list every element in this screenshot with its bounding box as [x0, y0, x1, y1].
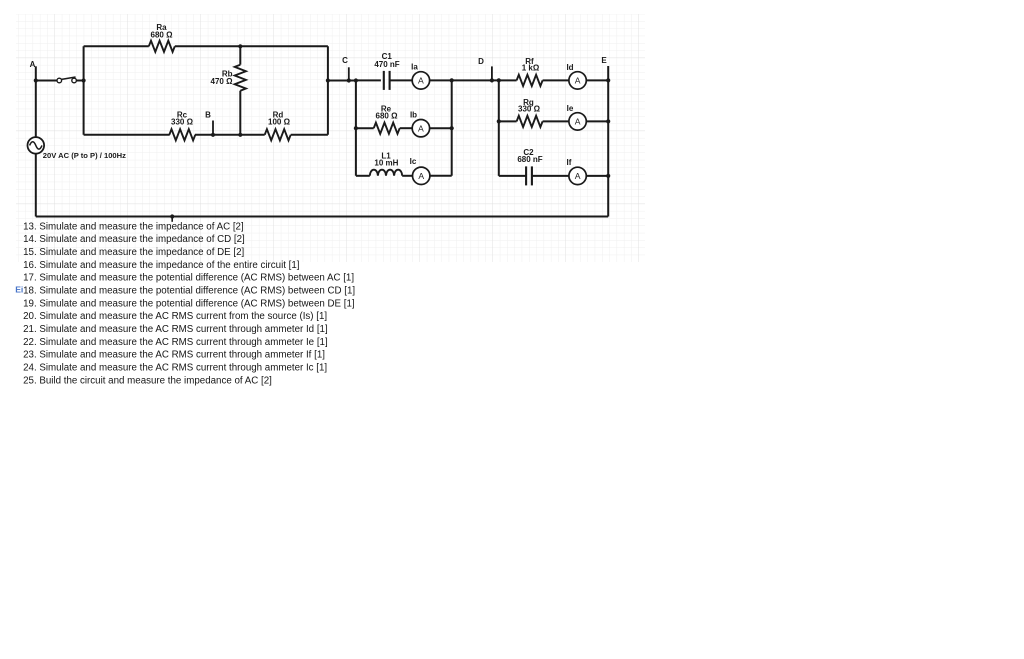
svg-text:Ia: Ia	[411, 62, 418, 71]
svg-text:16. Simulate and measure the i: 16. Simulate and measure the impedance o…	[23, 260, 300, 271]
ammeter Ib	[412, 120, 429, 137]
node C label	[342, 56, 348, 65]
svg-text:Ie: Ie	[567, 104, 574, 113]
junction group2 top-left	[497, 78, 501, 82]
label Ia	[411, 62, 418, 71]
svg-text:Ib: Ib	[410, 110, 417, 119]
junction E top	[606, 78, 610, 82]
junction C	[347, 78, 351, 82]
wire Rf to Id	[543, 79, 569, 81]
wire Rb upper lead	[239, 46, 241, 64]
wire Re to Ib	[400, 127, 413, 129]
label Ib	[410, 110, 417, 119]
node B tick	[212, 121, 214, 135]
switch SW1	[57, 77, 76, 83]
svg-text:24. Simulate and measure the A: 24. Simulate and measure the AC RMS curr…	[23, 363, 327, 374]
label If	[567, 158, 572, 167]
wire Rf left lead	[499, 79, 517, 81]
wire group1 to group2	[452, 79, 499, 81]
wire bottom loop right segment	[291, 134, 328, 136]
wire bottom loop left segment	[84, 134, 170, 136]
svg-text:20. Simulate and measure the A: 20. Simulate and measure the AC RMS curr…	[23, 311, 327, 322]
label C1	[374, 52, 399, 69]
resistor Rc	[169, 129, 195, 140]
junction E mid	[606, 119, 610, 123]
wire Rg to Ie	[543, 120, 569, 122]
label Ic	[410, 157, 417, 166]
junction group1 right Ib	[450, 126, 454, 130]
svg-text:21. Simulate and measure the A: 21. Simulate and measure the AC RMS curr…	[23, 324, 328, 335]
label Rc	[171, 111, 194, 127]
wire Rg left lead	[499, 120, 517, 122]
svg-text:A: A	[575, 117, 581, 127]
label C2	[517, 148, 542, 164]
resistor Rg	[517, 116, 543, 127]
source value label	[43, 151, 126, 160]
svg-text:Id: Id	[566, 63, 573, 72]
wire Rb lower lead	[239, 91, 241, 135]
label Ie	[567, 104, 574, 113]
wire Ic to rail	[430, 175, 452, 177]
wire group1 right rail	[451, 80, 453, 175]
wire loop left vertical	[83, 46, 85, 135]
wire switch to loop	[76, 80, 83, 82]
svg-text:19. Simulate and measure the p: 19. Simulate and measure the potential d…	[23, 298, 355, 309]
wire top mid segment	[175, 45, 328, 47]
wire L1 to Ic	[402, 175, 412, 177]
ammeter Ia	[412, 72, 429, 89]
junction Rb bottom	[238, 133, 242, 137]
node C tick	[348, 67, 350, 80]
label Rd	[268, 111, 291, 127]
svg-text:B: B	[205, 111, 211, 120]
svg-text:E: E	[601, 56, 607, 65]
resistor Rb	[235, 65, 246, 91]
label Rg	[518, 98, 541, 114]
AC source V1	[28, 137, 45, 154]
label L1	[374, 151, 398, 167]
svg-text:17. Simulate and measure the p: 17. Simulate and measure the potential d…	[23, 273, 354, 284]
wire group1 bottom left lead	[356, 175, 370, 177]
wire C2 left lead	[499, 175, 526, 177]
wire group2 left rail	[498, 80, 500, 175]
svg-text:23. Simulate and measure the A: 23. Simulate and measure the AC RMS curr…	[23, 350, 325, 361]
svg-text:13. Simulate and measure the i: 13. Simulate and measure the impedance o…	[23, 221, 244, 232]
bottom stub junction	[170, 214, 174, 221]
junction loop right mid	[326, 78, 330, 82]
svg-text:C: C	[342, 56, 348, 65]
svg-text:Ei: Ei	[15, 285, 23, 295]
wire C1 left lead	[356, 79, 381, 81]
node E label	[601, 56, 607, 65]
ammeter Ic	[413, 167, 430, 184]
svg-text:10 mH: 10 mH	[374, 159, 398, 168]
wire node A tick	[35, 66, 37, 80]
wire top left segment	[84, 45, 149, 47]
svg-text:18. Simulate and measure the p: 18. Simulate and measure the potential d…	[23, 286, 355, 297]
node D tick	[491, 66, 493, 80]
wire A to switch	[36, 80, 57, 82]
ammeter Ie	[569, 113, 586, 130]
svg-text:470 nF: 470 nF	[374, 60, 399, 69]
svg-text:A: A	[30, 60, 36, 69]
junction Rb top	[238, 44, 242, 48]
ammeter If	[569, 167, 586, 184]
svg-text:100 Ω: 100 Ω	[268, 118, 291, 127]
ammeter Id	[569, 72, 586, 89]
junction B	[211, 133, 215, 137]
resistor Rf	[517, 75, 543, 86]
label Re	[376, 105, 399, 121]
junction group1 top-left	[354, 78, 358, 82]
svg-text:330 Ω: 330 Ω	[518, 105, 541, 114]
wire group1 left rail	[355, 81, 357, 176]
svg-text:A: A	[418, 123, 424, 133]
junction group1 left Re	[354, 126, 358, 130]
wire Id to rail	[586, 79, 608, 81]
wire source to bottom	[35, 154, 37, 217]
grid	[16, 14, 645, 262]
wire C2 to If	[532, 175, 569, 177]
blue marker icon	[15, 285, 23, 295]
capacitor C1	[384, 71, 390, 90]
instruction list	[23, 221, 355, 386]
svg-text:Ic: Ic	[410, 157, 417, 166]
label Rf	[522, 57, 540, 73]
junction group2 left Rg	[497, 119, 501, 123]
wire If to rail	[586, 175, 608, 177]
wire loop to group1	[328, 80, 356, 82]
svg-text:680 Ω: 680 Ω	[151, 30, 174, 39]
svg-text:A: A	[418, 171, 424, 181]
svg-text:1 kΩ: 1 kΩ	[522, 63, 540, 72]
svg-text:22. Simulate and measure the A: 22. Simulate and measure the AC RMS curr…	[23, 337, 328, 348]
svg-text:680 Ω: 680 Ω	[376, 111, 399, 120]
label Id	[566, 63, 573, 72]
capacitor C2	[526, 166, 532, 185]
junction E bottom	[606, 174, 610, 178]
wire C1 to Ia	[390, 79, 413, 81]
svg-text:A: A	[418, 76, 424, 86]
inductor L1	[370, 170, 402, 176]
wire Re left lead	[356, 127, 374, 129]
wire bottom return	[36, 216, 608, 218]
svg-text:A: A	[575, 171, 581, 181]
svg-text:A: A	[575, 76, 581, 86]
node B label	[205, 111, 211, 120]
svg-text:25. Build the circuit and meas: 25. Build the circuit and measure the im…	[23, 375, 272, 386]
svg-text:If: If	[567, 158, 572, 167]
svg-text:D: D	[478, 57, 484, 66]
svg-text:330 Ω: 330 Ω	[171, 118, 194, 127]
node A label	[30, 60, 36, 69]
svg-text:680 nF: 680 nF	[517, 155, 542, 164]
wire Ib to rail	[430, 127, 452, 129]
label Rb	[211, 70, 234, 86]
node D label	[478, 57, 484, 66]
wire A down to source	[35, 81, 37, 138]
svg-text:470 Ω: 470 Ω	[211, 77, 234, 86]
wire Ie to rail	[586, 120, 608, 122]
resistor Ra	[149, 41, 175, 52]
svg-text:15. Simulate and measure the i: 15. Simulate and measure the impedance o…	[23, 247, 244, 258]
resistor Rd	[265, 129, 291, 140]
wire bottom loop mid segment	[195, 134, 265, 136]
junction at A	[34, 78, 38, 82]
wire E right rail	[607, 66, 609, 217]
label Ra	[151, 23, 174, 39]
wire loop right vertical	[327, 46, 329, 135]
svg-text:14. Simulate and measure the i: 14. Simulate and measure the impedance o…	[23, 234, 245, 245]
svg-text:20V AC (P to P) / 100Hz: 20V AC (P to P) / 100Hz	[43, 151, 126, 160]
wire Ia to rail	[430, 79, 452, 81]
junction group1 top-right	[450, 78, 454, 82]
resistor Re	[374, 123, 400, 134]
junction switch-loop	[82, 78, 86, 82]
junction D	[490, 78, 494, 82]
